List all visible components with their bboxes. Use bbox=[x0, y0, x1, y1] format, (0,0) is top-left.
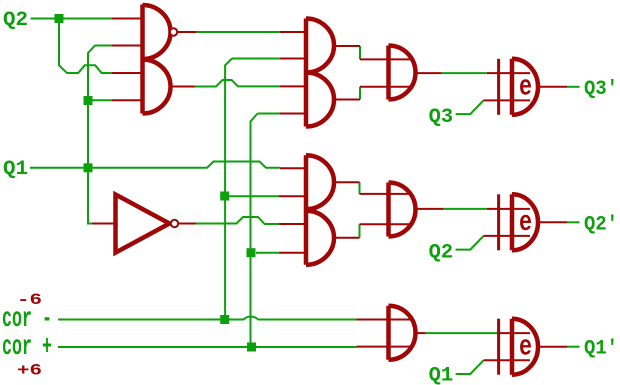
svg-text:Q2: Q2 bbox=[429, 241, 454, 264]
pin E2 in2 bbox=[484, 235, 531, 237]
pin U8 in1 bbox=[357, 319, 411, 321]
pin U3 out bbox=[179, 223, 197, 225]
pin E2 in1 bbox=[487, 208, 530, 210]
wire junction 224/196 to U5 gate1 input2 bbox=[229, 195, 279, 197]
wire cor+ vertical branch bbox=[251, 114, 258, 348]
pin U5 in1 bbox=[280, 167, 306, 169]
svg-text:e: e bbox=[519, 206, 532, 239]
pin U6 in2 bbox=[360, 86, 410, 88]
junction cor- at 196 bbox=[220, 192, 229, 201]
and-gate U4a curve bbox=[306, 19, 334, 73]
wire U6 out to e-gate E1 bbox=[442, 72, 487, 74]
pin U8 in2 bbox=[357, 346, 411, 348]
pin U4 in4 bbox=[280, 113, 306, 115]
wire Q1 label to E3 bbox=[456, 360, 484, 374]
e-gate E3 body bbox=[512, 319, 538, 375]
pin U5 in3 bbox=[279, 223, 306, 225]
junction Q1 wire bbox=[84, 163, 93, 172]
and-gate U6 body bbox=[389, 46, 416, 100]
nand-gate U1 + and-gate U2 stacked body edge bbox=[140, 5, 145, 114]
svg-text:e: e bbox=[519, 331, 532, 364]
pin U5 in4 bbox=[279, 252, 306, 254]
wire U7 out to e-gate E2 bbox=[444, 208, 487, 210]
wire Q1 horizontal with hop bbox=[30, 162, 280, 168]
pin E3 out bbox=[538, 346, 567, 348]
and-gate U4b curve bbox=[306, 73, 334, 127]
pin U5 out1 bbox=[334, 181, 360, 183]
wire Q1-net vertical (NAND input2 branch) bbox=[88, 46, 112, 224]
svg-text:Q1: Q1 bbox=[3, 158, 28, 181]
wire U5 gate2 out vertical link bbox=[359, 224, 361, 238]
nand-gate U1 curve bbox=[143, 5, 171, 59]
svg-text:Q3': Q3' bbox=[584, 78, 618, 101]
pin U2 out bbox=[172, 86, 196, 88]
wire U4 gate1 out vertical link bbox=[359, 46, 361, 59]
wire U5 gate1 out vertical link bbox=[359, 182, 361, 194]
bubble U3 inverter bbox=[171, 220, 178, 227]
svg-text:+6: +6 bbox=[17, 362, 42, 380]
and-gate stack U5 body edge bbox=[304, 155, 309, 265]
junction cor+ wire end bbox=[247, 343, 256, 352]
wire cor- vertical branch bbox=[225, 59, 232, 320]
pin E3 in2 bbox=[484, 359, 531, 361]
pin U4 out2 bbox=[334, 99, 360, 101]
and-gate U5a curve bbox=[306, 155, 334, 209]
pin U4 in1 bbox=[280, 31, 306, 33]
svg-text:Q1: Q1 bbox=[429, 365, 454, 385]
pin U4 in3 bbox=[280, 85, 306, 87]
svg-text:cor -: cor - bbox=[2, 304, 52, 335]
wire U8 out to e-gate E3 bbox=[426, 332, 497, 334]
pin E3 in1 bbox=[497, 332, 530, 334]
pin U1 in2 bbox=[112, 45, 143, 47]
svg-text:cor +: cor + bbox=[2, 332, 52, 363]
wire E1 output bbox=[567, 86, 580, 88]
bubble U1 nand bbox=[170, 28, 177, 35]
pin U5 out2 bbox=[334, 237, 360, 239]
wire E3 output bbox=[567, 346, 580, 348]
pin E1 in2 bbox=[484, 99, 531, 101]
pin U1 out bbox=[178, 31, 197, 33]
pin U6 out bbox=[416, 72, 442, 74]
pin U5 in2 bbox=[279, 195, 306, 197]
pin U7 out bbox=[416, 208, 444, 210]
e-gate E1 body bbox=[512, 59, 538, 115]
wire E2 output bbox=[567, 221, 580, 223]
e-gate E2 body bbox=[512, 194, 538, 250]
e-gate E1 enable bar bbox=[497, 59, 500, 115]
wire AND U2 out with hop to U4 gate2 bbox=[195, 80, 280, 87]
pin U2 in2 bbox=[112, 99, 143, 101]
junction cor- wire end bbox=[220, 315, 229, 324]
and-gate U7 body bbox=[389, 183, 416, 237]
svg-text:Q1': Q1' bbox=[584, 338, 618, 361]
pin U4 out1 bbox=[334, 45, 360, 47]
wire cor+ horizontal bbox=[58, 346, 357, 348]
pin U6 in1 bbox=[360, 58, 410, 60]
pin E1 out bbox=[538, 86, 567, 88]
wire Q2 horizontal bbox=[31, 18, 113, 20]
junction Q1-net at 100 bbox=[84, 96, 93, 105]
pin E1 in1 bbox=[487, 72, 530, 74]
svg-text:e: e bbox=[519, 71, 532, 104]
pin U1 in1 bbox=[112, 18, 143, 20]
wire Q3 label to E1 bbox=[456, 100, 484, 114]
pin U8 out bbox=[416, 332, 426, 334]
svg-text:Q2': Q2' bbox=[584, 213, 618, 236]
e-gate E3 enable bar bbox=[497, 319, 500, 375]
wire Q2 branch down to AND U2 input (with hop over vertical) bbox=[59, 19, 112, 73]
wire junction 251/252.7 to U5 gate2 input2 bbox=[256, 252, 279, 254]
junction Q2 bbox=[55, 14, 64, 23]
and-gate U2 curve bbox=[143, 60, 171, 114]
e-gate E2 enable bar bbox=[497, 194, 500, 250]
pin U2 in1 bbox=[112, 72, 143, 74]
svg-text:Q3: Q3 bbox=[429, 106, 454, 129]
pin U7 in1 bbox=[360, 193, 410, 195]
wire inverter U3 out with hop to U5 bbox=[196, 217, 279, 224]
wire cor- horizontal with arc hop bbox=[58, 317, 357, 320]
wire Q2 label to E2 bbox=[456, 236, 484, 250]
junction cor+ at 252.7 bbox=[247, 248, 256, 257]
wire U4 gate2 out vertical link bbox=[359, 87, 361, 100]
pin U7 in2 bbox=[360, 223, 410, 225]
and-gate U5b curve bbox=[306, 211, 334, 265]
wire NAND U1 output to stack U4 bbox=[197, 31, 280, 33]
wire cor+ branch to U4 gate2 input2 bbox=[258, 113, 280, 115]
and-gate stack U4 body edge bbox=[304, 19, 309, 127]
inverter U3 triangle bbox=[116, 195, 170, 253]
pin U4 in2 bbox=[280, 58, 306, 60]
wire cor- branch to U4 gate1 input2 bbox=[232, 58, 280, 60]
pin E2 out bbox=[538, 221, 567, 223]
and-gate U8 body bbox=[389, 306, 416, 360]
svg-text:Q2: Q2 bbox=[3, 9, 28, 32]
wire Q1-net branch to AND U2 input2 bbox=[92, 99, 112, 101]
pin U3 in bbox=[92, 223, 116, 225]
